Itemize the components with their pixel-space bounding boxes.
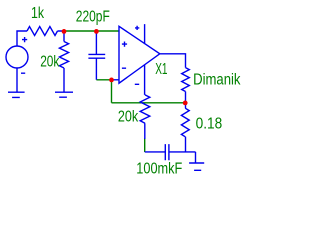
svg-text:0.18: 0.18: [196, 116, 223, 133]
svg-text:100mkF: 100mkF: [136, 160, 182, 177]
svg-text:Dimanik: Dimanik: [193, 71, 241, 88]
svg-text:20k: 20k: [40, 54, 59, 71]
svg-text:1k: 1k: [31, 5, 44, 22]
svg-text:220pF: 220pF: [76, 8, 110, 25]
svg-text:X1: X1: [155, 61, 167, 78]
svg-text:20k: 20k: [118, 108, 138, 125]
